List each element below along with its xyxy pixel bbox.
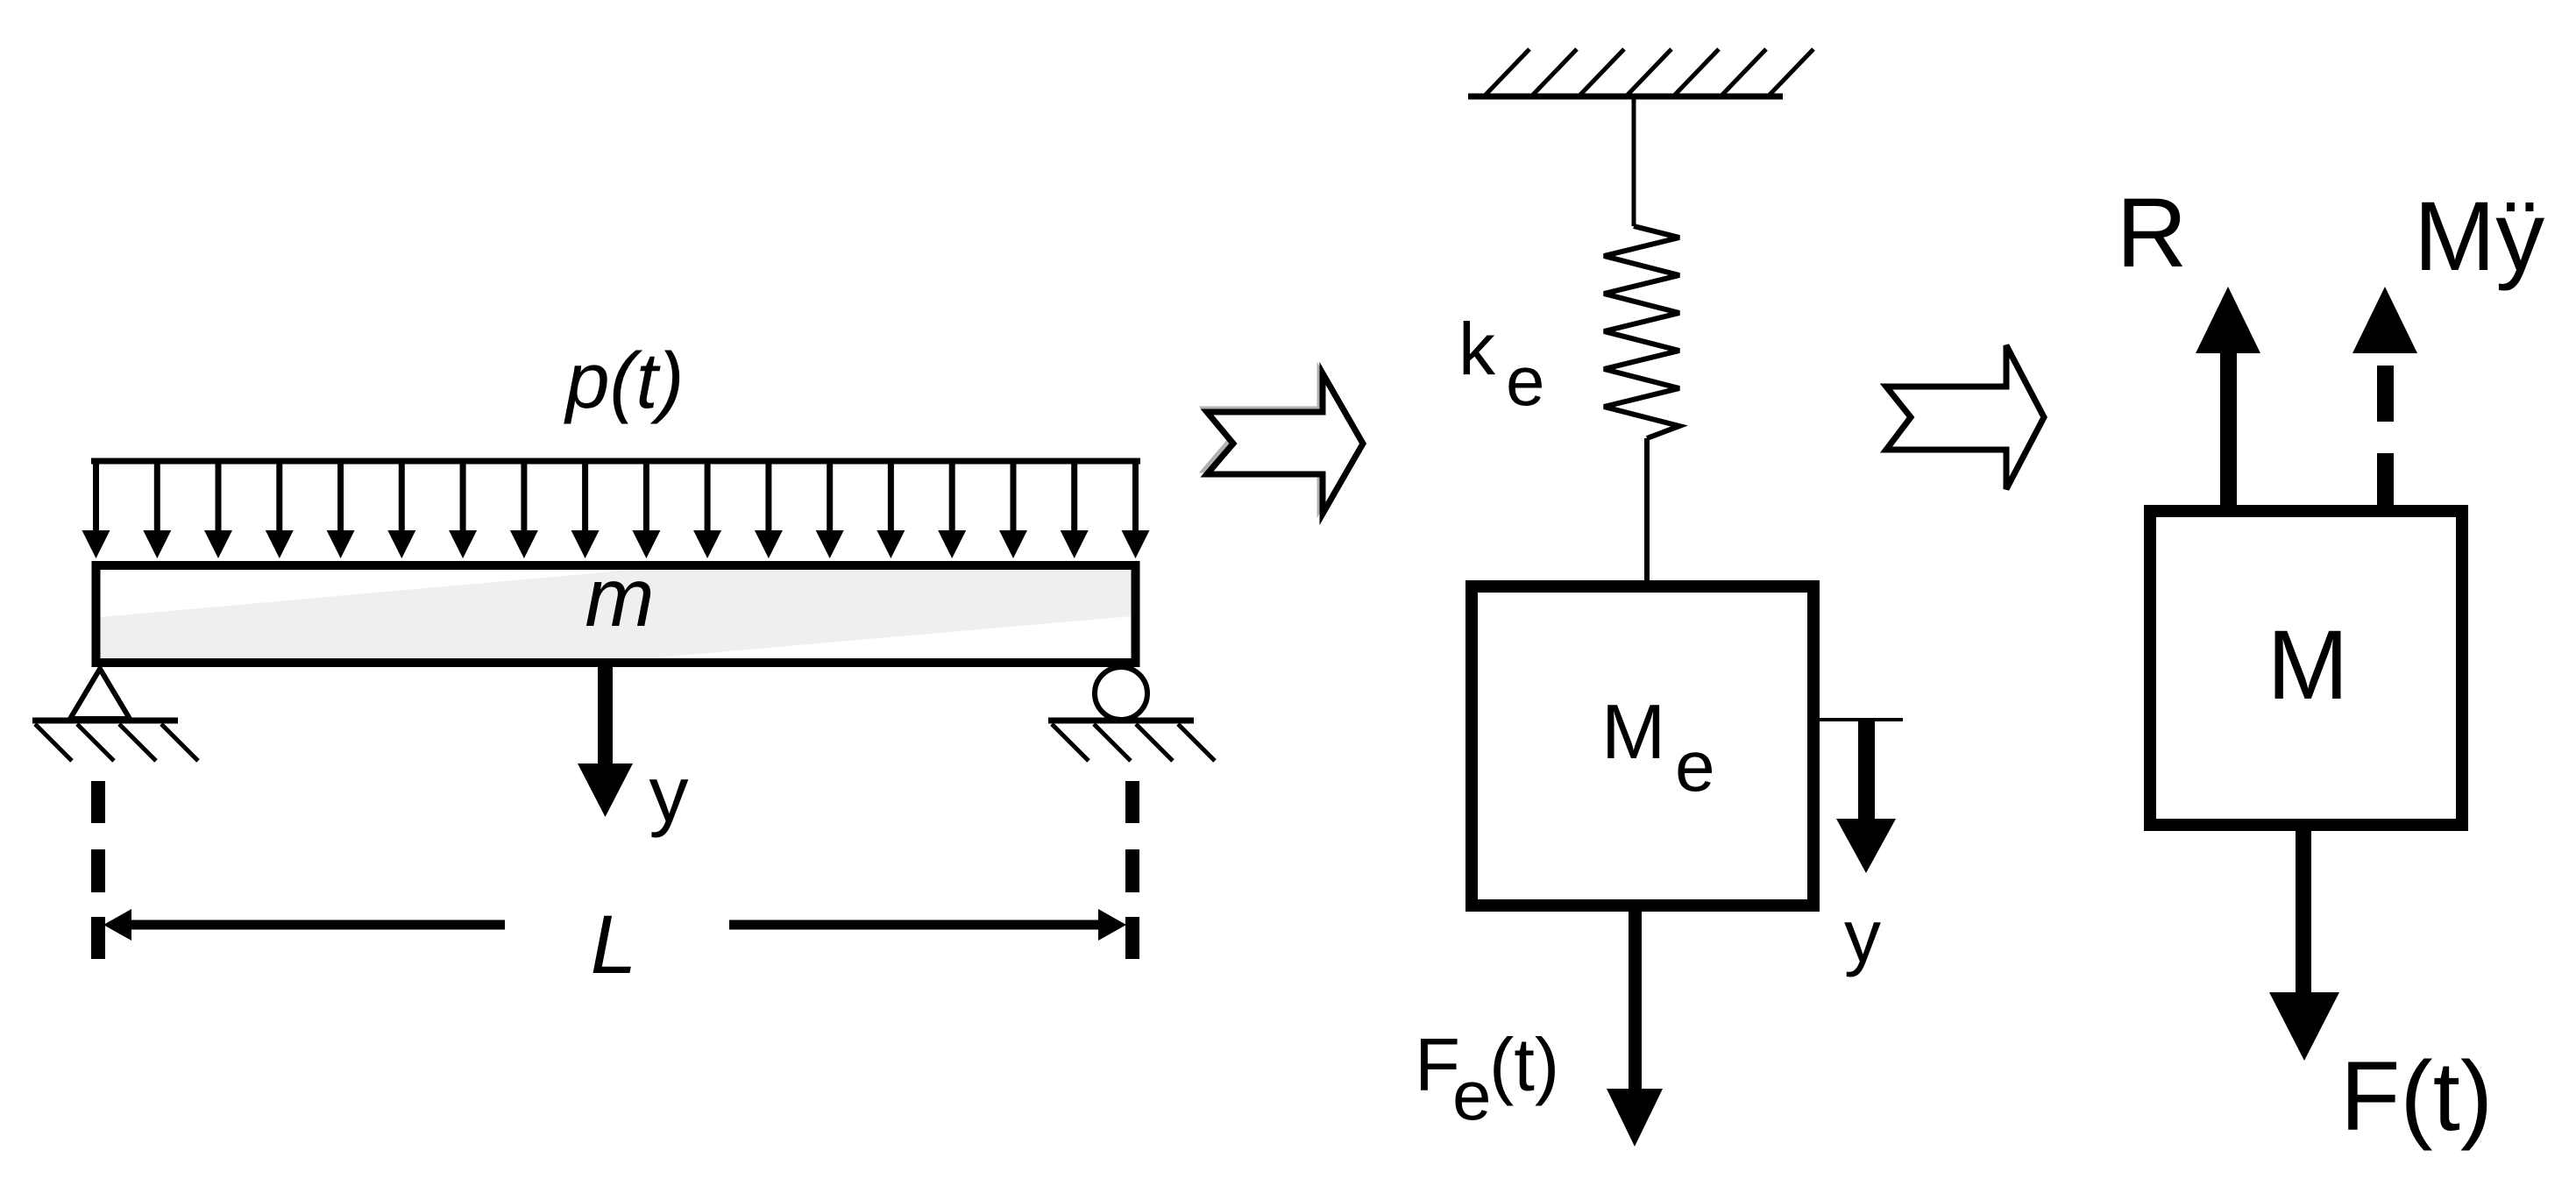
right extension dashed line [1125, 781, 1139, 959]
inertia arrow My'' (dashed) [2352, 287, 2417, 506]
svg-text:L: L [591, 898, 637, 991]
label k_e [1458, 308, 1545, 420]
roller support hatching [1052, 724, 1215, 761]
svg-text:R: R [2117, 178, 2188, 288]
svg-text:k: k [1458, 308, 1496, 390]
svg-text:y: y [1844, 895, 1881, 977]
label Me [1601, 688, 1715, 806]
svg-text:e: e [1452, 1056, 1492, 1134]
mass Me box [1472, 586, 1813, 905]
transform arrow 2 (notched right arrow) [1886, 345, 2044, 489]
force arrow F(t) [2269, 831, 2339, 1061]
dimension line L [103, 909, 1126, 941]
distributed load top line [91, 458, 1140, 465]
reaction arrow R [2196, 287, 2260, 506]
transform arrow 1 (notched right arrow) [1203, 370, 1363, 514]
roller support ground line [1048, 718, 1194, 724]
svg-text:M: M [2267, 610, 2348, 720]
svg-text:F(t): F(t) [2340, 1041, 2493, 1151]
spring k_e [1604, 226, 1679, 438]
svg-text:y: y [649, 751, 689, 839]
label Fe(t) [1415, 1024, 1559, 1134]
mass M box [2150, 511, 2462, 825]
beam m [96, 565, 1136, 663]
pin support triangle [70, 669, 130, 719]
deflection arrow y [578, 664, 633, 817]
distributed load arrows [82, 461, 1150, 558]
left extension dashed line [91, 781, 105, 959]
beam shading (gray slab) [100, 570, 1132, 657]
pin support ground line [32, 718, 178, 724]
svg-text:e: e [1506, 342, 1545, 420]
force arrow Fe(t) [1607, 912, 1663, 1147]
svg-text:M: M [1601, 688, 1665, 775]
svg-text:m: m [585, 551, 654, 644]
roller support circle [1095, 667, 1147, 720]
wire ceiling to spring [1632, 96, 1636, 226]
wire spring to mass [1644, 438, 1650, 583]
svg-text:p(t): p(t) [564, 337, 685, 425]
ceiling line [1468, 94, 1783, 100]
svg-text:e: e [1675, 727, 1715, 806]
svg-text:Mÿ: Mÿ [2414, 181, 2544, 291]
ceiling hatching [1486, 49, 1813, 95]
pin support hatching [35, 724, 198, 761]
reference line y (middle) [1820, 718, 1903, 721]
displacement arrow y (middle) [1836, 720, 1896, 873]
svg-text:(t): (t) [1489, 1024, 1559, 1107]
